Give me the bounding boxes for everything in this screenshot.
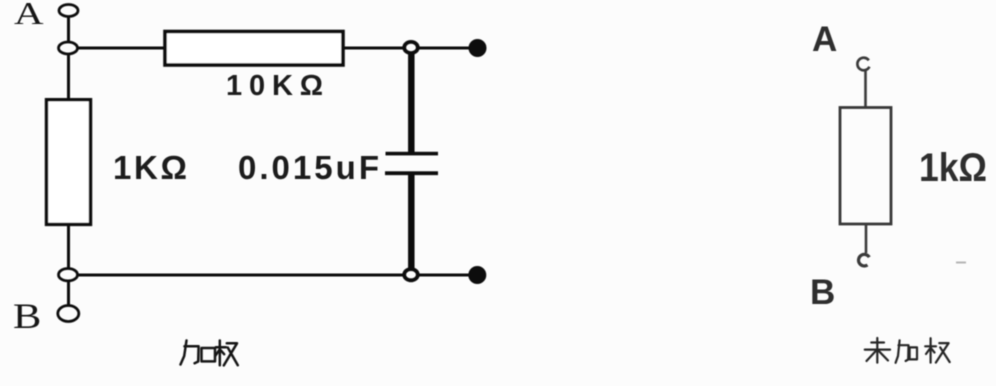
terminal B (right circuit) xyxy=(859,254,870,266)
caption 未加权 : character 加 xyxy=(896,340,917,363)
resistor R2 xyxy=(47,100,91,225)
svg-text:A: A xyxy=(812,20,837,59)
capacitor C1 bottom plate xyxy=(385,171,438,175)
svg-text:0.015uF: 0.015uF xyxy=(238,149,379,186)
resistor R1 xyxy=(165,32,343,66)
resistor R3 xyxy=(840,108,891,225)
svg-text:10KΩ: 10KΩ xyxy=(226,70,323,102)
top output terminal dot xyxy=(469,39,487,57)
caption 加权 : character 加 xyxy=(181,341,216,365)
svg-text:B: B xyxy=(810,273,835,312)
bottom output terminal dot xyxy=(468,266,486,284)
wire R2 to junction B xyxy=(67,224,70,269)
caption 未加权 : character 未 xyxy=(865,338,890,363)
junction bottom-right xyxy=(404,269,418,280)
wire junction A to R1 xyxy=(78,47,167,50)
terminal A xyxy=(59,5,78,17)
wire junction to top output dot xyxy=(418,47,470,50)
junction top-right xyxy=(404,42,418,53)
caption 加权 : character 权 xyxy=(215,341,238,366)
bottom wire junction B to junction bottom-right xyxy=(78,274,405,277)
svg-text:A: A xyxy=(14,0,44,31)
svg-text:1KΩ: 1KΩ xyxy=(113,149,187,186)
capacitor C1 top plate xyxy=(386,152,439,156)
terminal A (right circuit) xyxy=(857,58,869,71)
scan artifact dash xyxy=(956,262,966,264)
wire R3 to terminal B xyxy=(865,224,868,253)
wire terminal A to junction A xyxy=(67,17,70,43)
wire terminal A to R3 xyxy=(864,69,867,108)
terminal B xyxy=(58,306,79,322)
svg-text:1kΩ: 1kΩ xyxy=(919,146,987,190)
junction B xyxy=(59,269,78,281)
caption 未加权 : character 权 xyxy=(925,338,950,362)
wire junction to bottom output dot xyxy=(418,274,469,277)
svg-text:B: B xyxy=(13,296,41,336)
wire junction B to terminal B xyxy=(67,281,70,306)
junction A xyxy=(59,42,78,54)
wire junction top-right to C1 xyxy=(408,53,415,152)
wire R1 to junction top-right xyxy=(343,47,404,50)
wire junction A to R2 xyxy=(67,54,70,100)
wire C1 to junction bottom-right xyxy=(408,175,415,270)
